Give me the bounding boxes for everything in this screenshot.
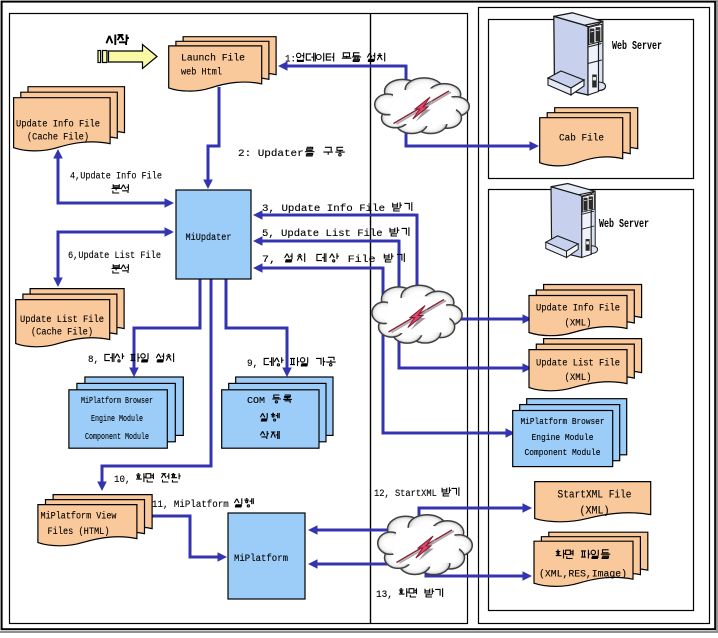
svg-text:1:: 1: [285, 54, 296, 66]
svg-text:(Cache File): (Cache File) [27, 132, 89, 144]
svg-text:9,: 9, [247, 358, 264, 370]
svg-text:Update Info File: Update Info File [536, 303, 620, 315]
svg-text:COM: COM [247, 395, 271, 406]
svg-text:Engine Module: Engine Module [532, 432, 594, 443]
svg-text:Cab File: Cab File [559, 133, 604, 145]
svg-text:Update Info File: Update Info File [16, 119, 100, 131]
svg-text:(XML): (XML) [565, 372, 592, 384]
svg-text:MiUpdater: MiUpdater [186, 232, 232, 244]
svg-text:File: File [341, 254, 383, 266]
svg-text:Component Module: Component Module [525, 447, 601, 458]
svg-text:4,Update Info File: 4,Update Info File [70, 171, 162, 183]
svg-text:MiPlatform View: MiPlatform View [41, 511, 117, 523]
svg-text:(XML): (XML) [565, 318, 592, 330]
svg-text:MiPlatform Browser: MiPlatform Browser [81, 395, 153, 406]
svg-text:Web Server: Web Server [599, 217, 649, 231]
svg-text:web Html: web Html [181, 67, 222, 79]
svg-text:Update List File: Update List File [20, 314, 104, 326]
svg-text:Files (HTML): Files (HTML) [48, 526, 110, 538]
svg-text:Web Server: Web Server [612, 39, 662, 53]
svg-text:Engine Module: Engine Module [91, 413, 143, 424]
svg-text:8,: 8, [88, 354, 105, 366]
svg-text:10,: 10, [114, 474, 136, 486]
svg-text:StartXML File: StartXML File [558, 490, 632, 502]
svg-text:13,: 13, [376, 589, 399, 601]
svg-text:(XML): (XML) [580, 506, 610, 518]
svg-text:(XML,RES,Image): (XML,RES,Image) [539, 569, 627, 581]
svg-text:(Cache File): (Cache File) [31, 327, 93, 339]
svg-text:MiPlatform Browser: MiPlatform Browser [521, 416, 605, 427]
svg-text:3, Update Info File: 3, Update Info File [262, 203, 392, 215]
svg-text:Component Module: Component Module [85, 431, 149, 442]
svg-text:Update List File: Update List File [536, 358, 620, 370]
svg-text:2: Updater: 2: Updater [238, 148, 304, 160]
svg-text:Launch File: Launch File [181, 53, 245, 65]
svg-text:7,: 7, [262, 254, 283, 266]
svg-text:12, StartXML: 12, StartXML [374, 488, 442, 500]
svg-text:5, Update List File: 5, Update List File [262, 228, 389, 240]
svg-text:MiPlatform: MiPlatform [234, 553, 288, 565]
svg-text:6,Update List File: 6,Update List File [68, 250, 161, 262]
svg-text:11, MiPlatform: 11, MiPlatform [152, 499, 234, 511]
